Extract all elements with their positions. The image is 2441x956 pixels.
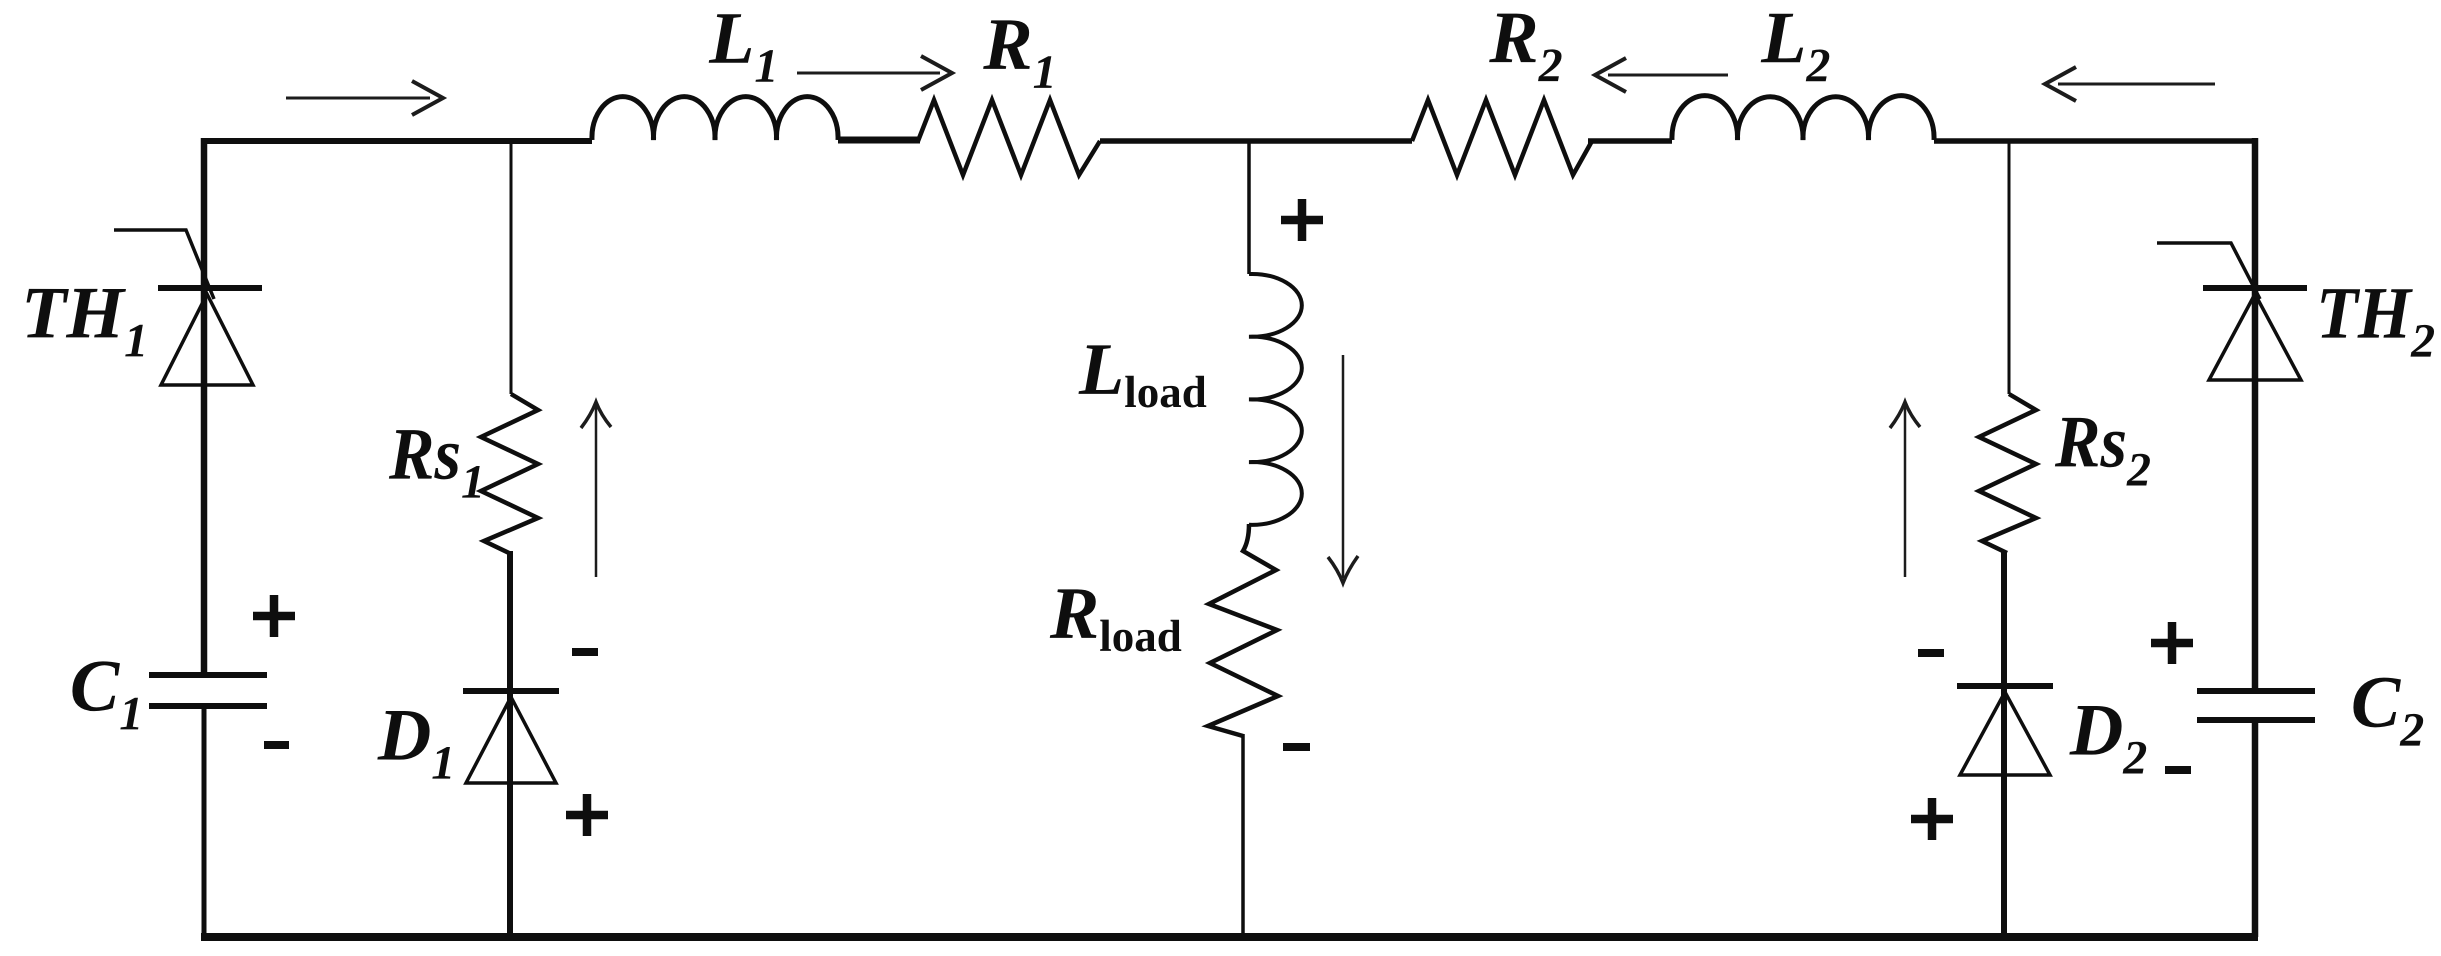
- svg-text:D1: D1: [377, 695, 456, 790]
- svg-text:Rs1: Rs1: [388, 414, 485, 509]
- svg-text:Rload: Rload: [1049, 573, 1182, 661]
- svg-text:C2: C2: [2351, 662, 2424, 757]
- svg-text:Lload: Lload: [1078, 329, 1207, 417]
- svg-text:D2: D2: [2069, 689, 2148, 784]
- svg-text:C1: C1: [70, 645, 143, 740]
- svg-text:TH1: TH1: [21, 272, 148, 367]
- svg-text:R1: R1: [982, 4, 1056, 99]
- svg-text:R2: R2: [1488, 0, 1562, 92]
- svg-text:TH2: TH2: [2316, 273, 2435, 368]
- svg-text:L2: L2: [1760, 0, 1830, 92]
- svg-text:Rs2: Rs2: [2054, 401, 2151, 496]
- svg-text:L1: L1: [708, 0, 778, 93]
